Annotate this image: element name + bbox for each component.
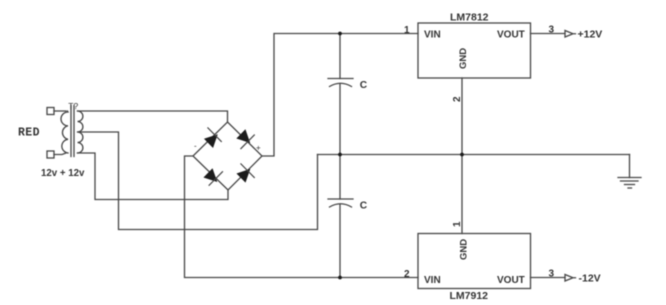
regulator U1 LM7812 box	[418, 23, 531, 78]
capacitor C1 curved plate	[330, 83, 352, 86]
svg-text:-: -	[194, 142, 197, 151]
svg-text:1: 1	[452, 221, 463, 227]
svg-text:VOUT: VOUT	[497, 30, 525, 41]
svg-text:LM7812: LM7812	[450, 12, 489, 24]
svg-text:2: 2	[404, 269, 410, 280]
svg-text:GND: GND	[459, 239, 470, 260]
capacitor C2 curved plate	[330, 204, 352, 207]
wire secondary bottom tap to bridge bottom	[78, 153, 229, 200]
diode D2 (top-right arm, pointing to right corner)	[237, 130, 254, 149]
svg-text:+12V: +12V	[578, 29, 603, 41]
diode D4 (bottom-right arm, pointing to right corner)	[237, 164, 254, 182]
svg-text:-12V: -12V	[579, 273, 601, 285]
svg-text:RED: RED	[18, 127, 40, 140]
svg-text:T?: T?	[68, 101, 78, 111]
wire	[54, 153, 66, 155]
diode D1 (left-top arm, pointing to top corner)	[205, 128, 222, 147]
transformer T? secondary winding	[78, 111, 83, 153]
wire secondary top tap to bridge top	[78, 111, 228, 122]
wire U2 VOUT pin 3	[531, 277, 566, 279]
svg-text:+: +	[256, 144, 261, 153]
ground rail wire	[318, 154, 630, 156]
wire ground rail to C2	[339, 155, 341, 200]
transformer T? primary winding	[61, 111, 68, 153]
capacitor C1 top plate	[328, 78, 353, 80]
ground symbol	[618, 155, 641, 189]
svg-text:1: 1	[404, 25, 410, 36]
junction node +V rail / C1	[338, 32, 342, 36]
svg-text:VOUT: VOUT	[497, 275, 525, 286]
svg-text:C: C	[360, 80, 368, 91]
arrow -12V output	[565, 275, 576, 282]
svg-text:3: 3	[549, 269, 555, 280]
svg-text:LM7912: LM7912	[450, 290, 489, 302]
wire C1 to ground rail	[339, 84, 341, 155]
svg-text:GND: GND	[458, 48, 469, 69]
wire C2 to -V rail	[339, 205, 341, 278]
bridge rectifier diamond	[193, 122, 262, 190]
transformer T? primary terminal (top square)	[47, 108, 54, 115]
bridge left corner (-) wire down to -V rail	[185, 156, 419, 278]
junction node -V rail / C2	[338, 276, 342, 280]
svg-text:3: 3	[549, 25, 555, 36]
svg-text:12v + 12v: 12v + 12v	[41, 168, 85, 179]
junction node ground rail / C	[338, 153, 342, 157]
svg-text:C: C	[360, 201, 368, 212]
diode D3 (left-bottom arm, pointing to bottom corner)	[204, 169, 223, 186]
transformer T? primary terminal (bottom square)	[47, 151, 54, 158]
wire +V rail to C1	[339, 34, 341, 79]
wire secondary center tap down and right to ground rail riser	[78, 132, 318, 230]
regulator U2 LM7912 box	[418, 234, 531, 289]
svg-text:VIN: VIN	[424, 30, 441, 41]
junction node ground rail / GND pins	[460, 153, 464, 157]
capacitor C2 top plate	[328, 198, 353, 200]
svg-text:VIN: VIN	[424, 275, 441, 286]
bridge right corner (+) wire up to +V rail	[262, 34, 418, 157]
arrow +12V output	[565, 31, 576, 38]
transformer T? core	[71, 106, 74, 157]
wire U1 VOUT pin 3	[531, 33, 566, 35]
wire regulator GND interconnect	[461, 78, 463, 234]
wire	[54, 110, 66, 112]
svg-text:2: 2	[452, 96, 463, 102]
